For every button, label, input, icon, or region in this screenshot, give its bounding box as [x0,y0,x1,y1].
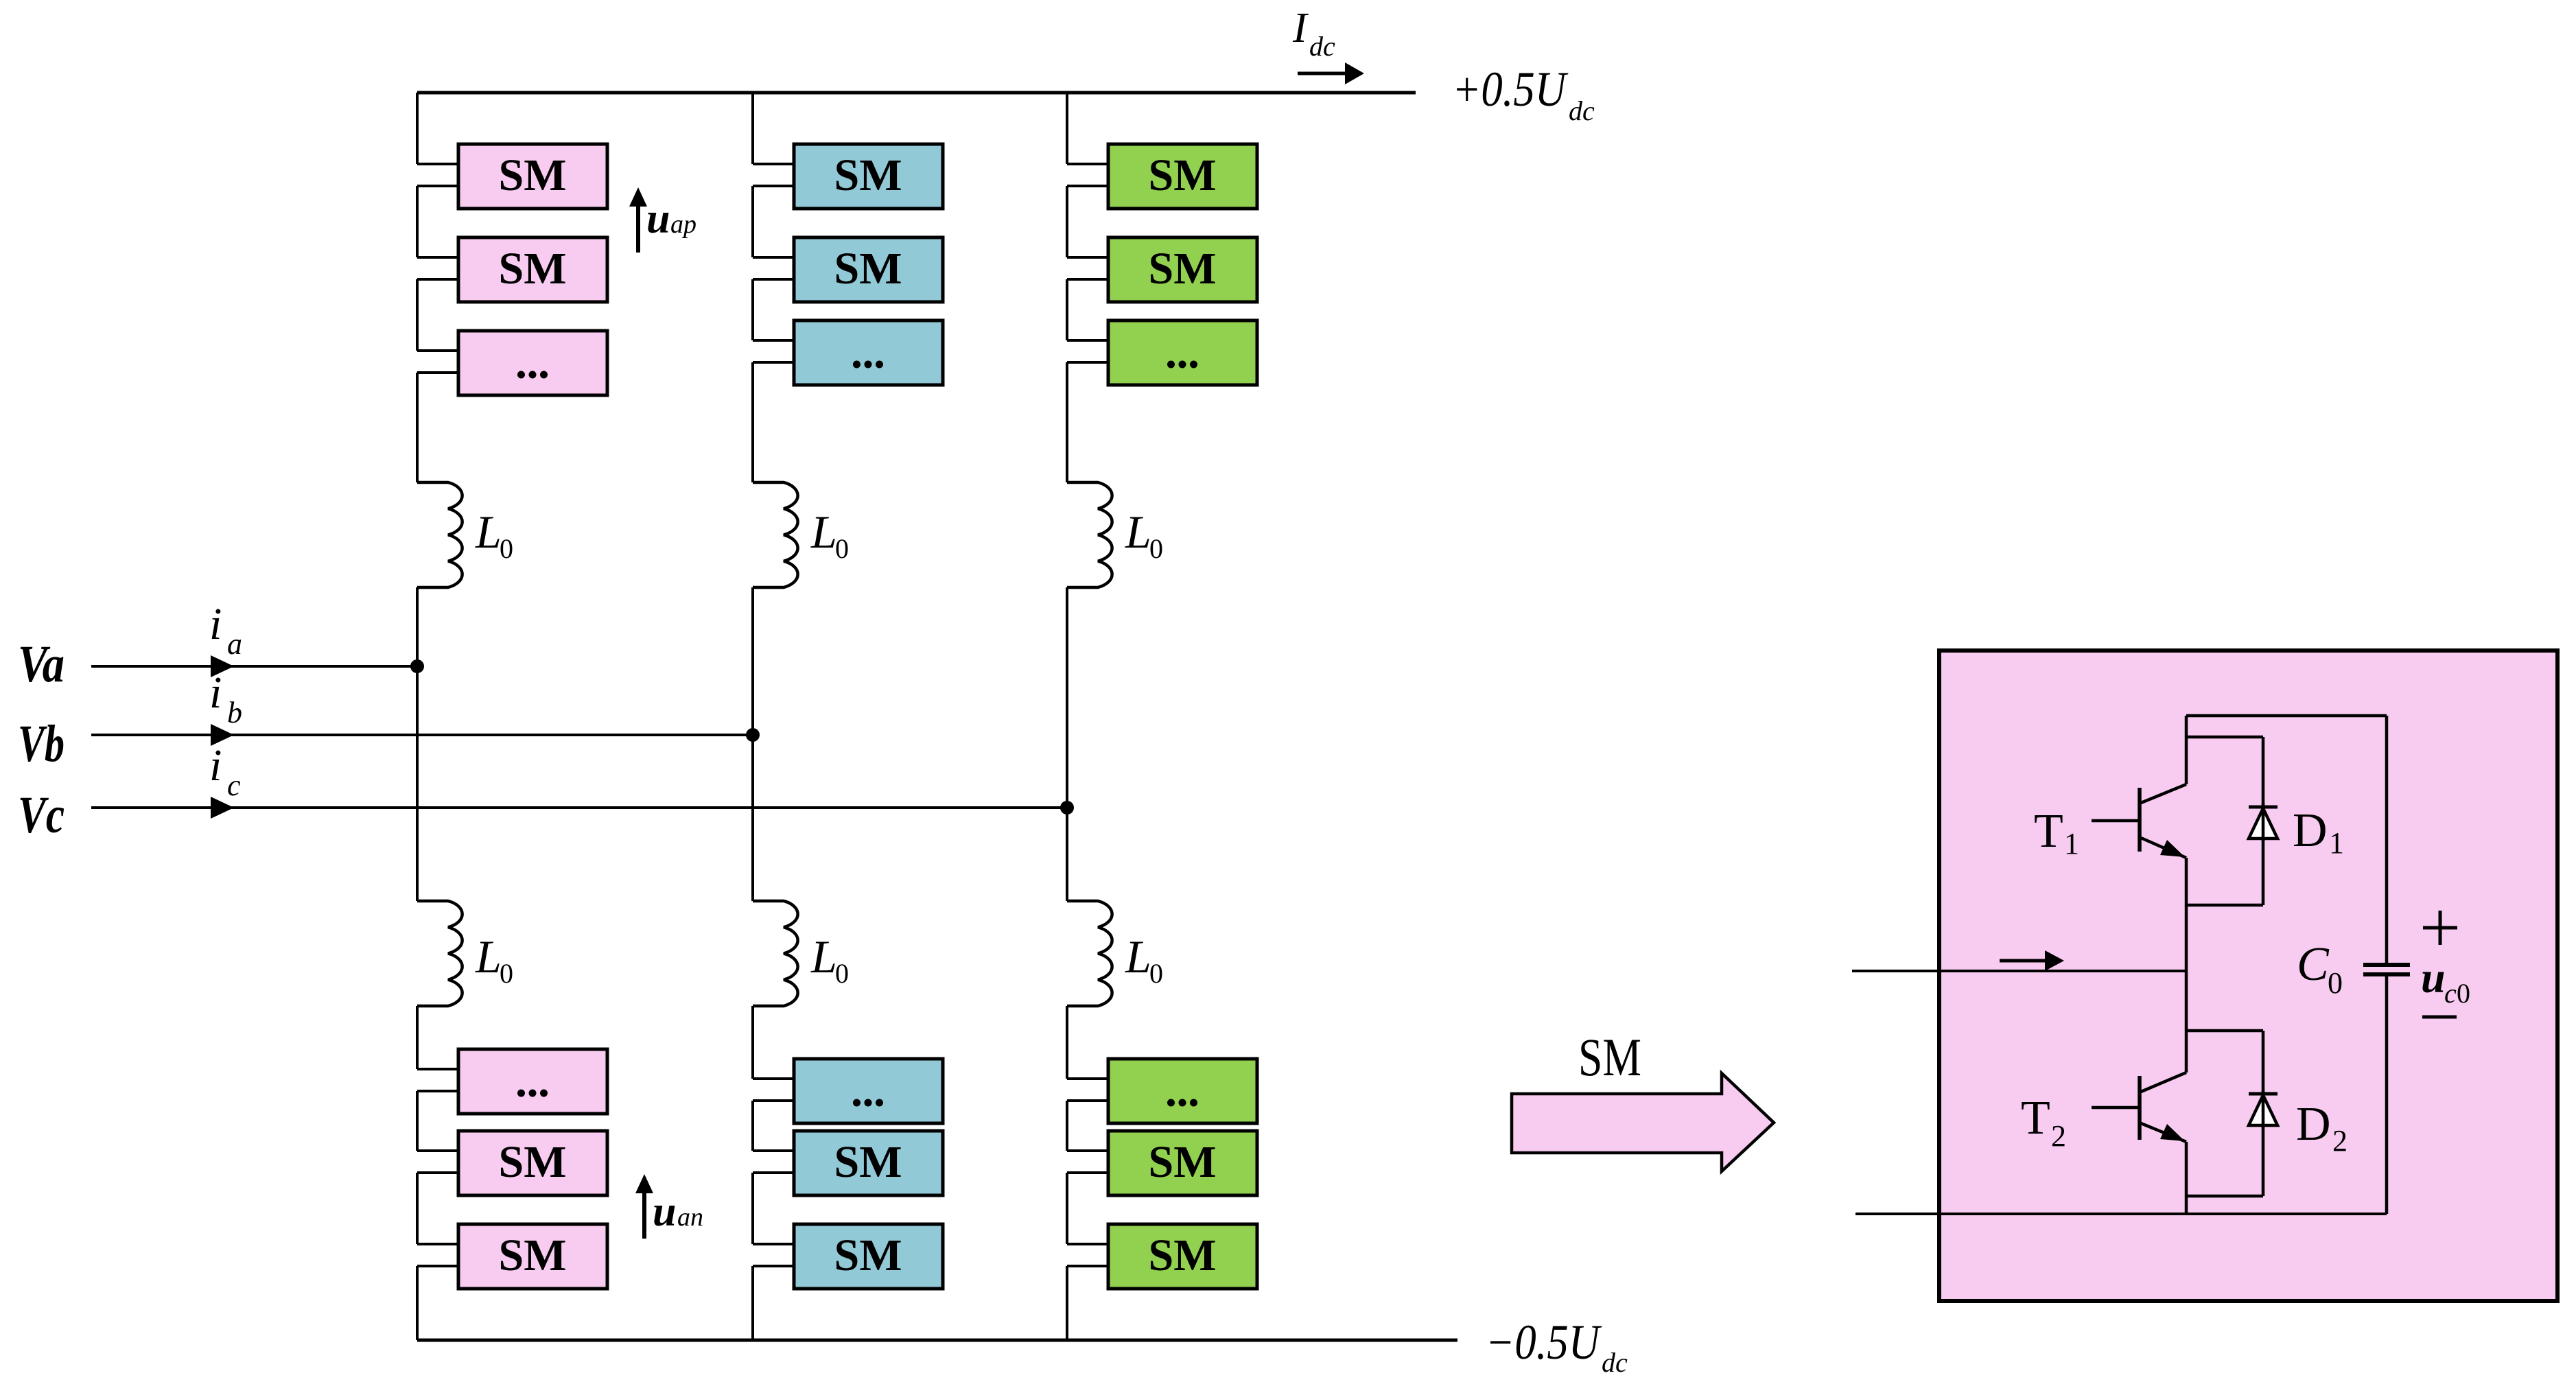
svg-text:2: 2 [2051,1119,2066,1153]
wire capacitor branch lower [2385,976,2389,1214]
capacitor minus polarity [2422,1016,2457,1019]
svg-text:L: L [810,506,837,558]
svg-text:D: D [2296,1098,2331,1151]
svg-text:−0.5U: −0.5U [1486,1315,1602,1370]
node phase a ac terminal [410,659,424,673]
SM submodule phase b upper 2 [794,237,943,302]
arrow SM input current [2000,950,2064,971]
capacitor plus polarity [2423,911,2457,945]
inductor L0 phase a upper arm [417,482,462,587]
inductor L0 phase b upper arm [753,482,798,587]
wire D2 branch [2186,1031,2263,1196]
wire SM midpoint input [1852,970,2186,972]
wire phase a leg middle [416,587,419,901]
label T2 [2021,1092,2066,1153]
label L0 (phase c upper) [1125,506,1163,564]
svg-text:dc: dc [1602,1347,1628,1378]
SM submodule phase a lower 3 [458,1224,607,1289]
svg-text:L: L [1125,506,1151,558]
inductor L0 phase c upper arm [1067,482,1112,587]
svg-text:i: i [209,668,222,718]
svg-text:an: an [677,1203,703,1232]
svg-text:0: 0 [500,533,513,564]
svg-text:Vc: Vc [18,786,65,844]
arrow current ib direction [211,724,234,746]
svg-text:SM: SM [1578,1027,1641,1087]
label Idc [1292,5,1335,62]
transistor T1 [2092,784,2186,858]
svg-text:0: 0 [1149,958,1163,989]
label L0 (phase a upper) [475,506,513,564]
label ic [209,740,241,802]
svg-text:u: u [2421,953,2446,1002]
transistor T2 [2092,1073,2186,1142]
svg-text:SM: SM [499,1137,567,1187]
wire phase a lower arm bus segments [417,1006,458,1340]
svg-text:1: 1 [2064,827,2079,860]
label D1 [2293,804,2344,860]
diode D1 [2249,803,2278,841]
arrow Idc direction [1298,62,1364,84]
inductor L0 phase a lower arm [417,901,462,1006]
SM submodule phase b lower 3 [794,1224,943,1289]
svg-text:+0.5U: +0.5U [1452,62,1568,117]
svg-text:0: 0 [2328,966,2343,1000]
node phase c ac terminal [1060,801,1074,815]
wire phase c leg middle [1066,587,1068,901]
wire SM bottom input [1855,1213,2387,1215]
svg-text:SM: SM [834,1230,902,1280]
label ib [209,668,242,729]
SM expansion block arrow [1512,1073,1774,1171]
SM submodule phase b upper 1 [794,144,943,209]
svg-text:T: T [2021,1092,2050,1145]
wire SM main leg middle [2185,858,2188,1073]
wire Vb input line [91,734,753,736]
svg-text:SM: SM [499,244,567,294]
SM submodule phase a upper 3 [458,331,607,395]
wire phase a upper arm bus segments [417,93,458,482]
svg-text:SM: SM [834,1137,902,1187]
svg-text:SM: SM [834,244,902,294]
SM submodule phase b lower 2 [794,1131,943,1195]
svg-text:SM: SM [1149,244,1217,294]
label L0 (phase c lower) [1125,930,1163,989]
wire phase c upper arm bus segments [1067,93,1108,482]
wire capacitor branch upper [2385,716,2389,963]
svg-text:SM: SM [1149,1230,1217,1280]
SM submodule phase a lower 1 [458,1049,607,1114]
svg-text:L: L [810,930,837,983]
label L0 (phase b upper) [810,506,849,564]
svg-text:L: L [1125,930,1151,983]
SM submodule phase c upper 2 [1108,237,1257,302]
wire phase b leg middle [751,587,754,901]
svg-text:Va: Va [18,635,65,693]
svg-text:SM: SM [499,150,567,200]
svg-text:SM: SM [1149,1137,1217,1187]
svg-text:0: 0 [500,958,513,989]
arrow current ic direction [211,797,234,819]
SM submodule phase a lower 2 [458,1131,607,1195]
SM submodule phase c lower 2 [1108,1131,1257,1195]
svg-text:dc: dc [1569,95,1595,126]
svg-text:T: T [2034,805,2063,858]
arrow uan arm voltage [635,1174,653,1239]
SM submodule phase c upper 3 [1108,320,1257,385]
svg-text:2: 2 [2332,1124,2347,1158]
diode D2 [2249,1090,2278,1128]
svg-text:a: a [227,627,242,661]
wire SM main leg lower [2185,1142,2188,1214]
svg-text:c: c [227,769,241,802]
svg-text:u: u [653,1188,676,1235]
wire SM top rail [2186,714,2387,718]
svg-text:1: 1 [2329,826,2344,860]
SM submodule phase c upper 1 [1108,144,1257,209]
svg-text:0: 0 [2457,978,2470,1009]
svg-text:i: i [209,740,222,790]
SM submodule phase a upper 1 [458,144,607,209]
inductor L0 phase c lower arm [1067,901,1112,1006]
wire phase b upper arm bus segments [753,93,794,482]
wire SM main leg upper [2185,716,2188,784]
label L0 (phase a lower) [475,930,513,989]
svg-text:I: I [1292,5,1309,51]
arrow current ia direction [211,655,234,677]
svg-text:SM: SM [499,1230,567,1280]
svg-text:c: c [2444,978,2457,1009]
svg-text:ap: ap [670,210,696,239]
svg-text:Vb: Vb [18,715,65,773]
label L0 (phase b lower) [810,930,849,989]
label D2 [2296,1098,2347,1158]
svg-text:D: D [2293,804,2328,857]
label uap [646,196,696,242]
arrow uap arm voltage [629,187,647,253]
svg-text:L: L [475,506,502,558]
svg-text:i: i [209,599,222,649]
node phase b ac terminal [746,728,760,742]
svg-text:0: 0 [835,533,849,564]
wire phase c lower arm bus segments [1067,1006,1108,1340]
capacitor C0 [2363,965,2410,974]
label uc0 [2421,953,2470,1009]
label C0 [2297,938,2343,1000]
SM submodule phase c lower 3 [1108,1224,1257,1289]
label ia [209,599,242,661]
svg-text:SM: SM [1149,150,1217,200]
dc bus positive rail [417,91,1416,95]
label -0.5Udc [1486,1315,1628,1378]
wire D1 branch [2186,737,2263,905]
svg-text:dc: dc [1309,31,1335,62]
SM submodule phase a upper 2 [458,237,607,302]
label +0.5Udc [1452,62,1595,126]
SM submodule phase c lower 1 [1108,1059,1257,1123]
wire Va input line [91,665,417,668]
label T1 [2034,805,2079,860]
svg-text:L: L [475,930,502,983]
svg-text:C: C [2297,938,2330,991]
svg-text:0: 0 [835,958,849,989]
label uan [653,1188,703,1235]
dc bus negative rail [417,1339,1457,1342]
svg-text:b: b [227,696,242,729]
SM submodule phase b upper 3 [794,320,943,385]
SM submodule detail box [1939,651,2557,1301]
SM submodule phase b lower 1 [794,1059,943,1123]
wire Vc input line [91,806,1067,809]
wire phase b lower arm bus segments [753,1006,794,1340]
svg-text:u: u [646,196,670,242]
svg-text:SM: SM [834,150,902,200]
inductor L0 phase b lower arm [753,901,798,1006]
svg-text:0: 0 [1149,533,1163,564]
